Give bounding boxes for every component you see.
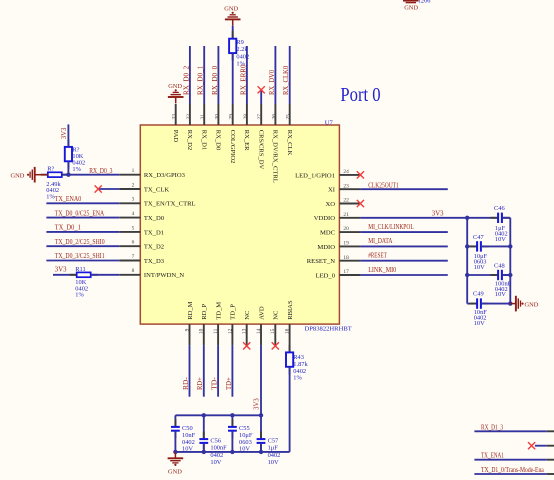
svg-text:TX_D2: TX_D2 <box>144 244 164 251</box>
svg-text:RX_D0_2: RX_D0_2 <box>183 65 190 95</box>
wire RD- vertical <box>189 345 191 397</box>
wire pin3 TX_ENA0 <box>46 202 119 204</box>
svg-text:8: 8 <box>132 268 135 274</box>
svg-text:GND: GND <box>11 172 25 179</box>
no-connect X pin15 <box>272 342 279 349</box>
svg-text:10V: 10V <box>474 320 485 327</box>
no-connect X pin13 <box>243 342 250 349</box>
wire pin1 to resistors <box>62 174 120 176</box>
wire RX_D0_0 vertical <box>217 46 219 104</box>
svg-text:TX_EN/TX_CTRL: TX_EN/TX_CTRL <box>144 201 196 208</box>
svg-text:4: 4 <box>132 211 135 217</box>
wire pin6 <box>46 245 119 247</box>
junction node right rail row2 <box>508 244 512 248</box>
pin 19 MDIO (right) <box>339 245 360 247</box>
svg-text:29: 29 <box>229 114 235 120</box>
svg-text:RX_D0_1: RX_D0_1 <box>198 66 205 95</box>
svg-text:31: 31 <box>200 114 206 120</box>
wire C47 to right rail <box>481 245 510 247</box>
svg-text:0402: 0402 <box>210 452 223 459</box>
svg-text:NC: NC <box>273 310 280 320</box>
svg-text:30: 30 <box>214 114 220 120</box>
no-connect X pin27 <box>258 86 265 93</box>
svg-text:10V: 10V <box>474 264 485 271</box>
svg-text:AVD: AVD <box>258 306 265 320</box>
pin 27 CRS/CRS_DV (top) <box>260 104 262 125</box>
svg-text:1μF: 1μF <box>268 445 279 452</box>
svg-text:1%: 1% <box>72 166 81 173</box>
pin 21 VDDIO (right) <box>339 217 360 219</box>
svg-text:LED_1/GPIO1: LED_1/GPIO1 <box>295 172 335 179</box>
svg-text:C47: C47 <box>473 234 484 241</box>
wire pin16 RBIAS to R43 <box>289 345 291 352</box>
wire with no-connect <box>535 445 547 447</box>
junction node bottom rail C55 <box>230 450 234 454</box>
svg-text:RD-: RD- <box>183 376 190 390</box>
svg-text:2: 2 <box>132 182 135 188</box>
wire TX_ENA1 <box>474 459 546 461</box>
svg-text:INT/PWDN_N: INT/PWDN_N <box>144 272 185 279</box>
svg-text:DP83822HRHBT: DP83822HRHBT <box>305 326 352 333</box>
svg-text:3V3: 3V3 <box>61 127 68 139</box>
svg-text:XI: XI <box>328 187 335 194</box>
pin 26 RX_DV/RX_CTRL (top) <box>274 104 276 125</box>
capacitor C46 1uF <box>490 217 498 219</box>
svg-text:17: 17 <box>343 269 349 275</box>
wire GND to R9 <box>232 26 234 39</box>
svg-text:TD+: TD+ <box>226 377 233 390</box>
wire RX_DV0 vertical <box>274 46 276 104</box>
svg-text:23: 23 <box>343 183 349 189</box>
svg-text:C56: C56 <box>210 438 221 445</box>
svg-text:TX_D0_3/C25_SHI1: TX_D0_3/C25_SHI1 <box>55 253 105 260</box>
junction node top rail C55 <box>230 413 234 417</box>
no-connect X pin2 <box>95 185 102 192</box>
svg-text:2.2k: 2.2k <box>236 46 248 53</box>
junction node bottom rail C56 <box>202 450 206 454</box>
svg-text:10V: 10V <box>210 459 221 466</box>
ground (right decoupling) <box>510 303 515 305</box>
svg-text:CRS/CRS_DV: CRS/CRS_DV <box>257 130 264 170</box>
svg-text:RD_M: RD_M <box>187 301 194 319</box>
svg-text:14: 14 <box>256 328 262 334</box>
pin stub (clipped) <box>547 473 554 475</box>
pin 15 NC (bottom) <box>274 324 276 345</box>
svg-text:26: 26 <box>271 114 277 120</box>
junction node right rail row3 <box>508 273 512 277</box>
svg-text:MDC: MDC <box>320 230 336 237</box>
pin 28 RX_ER (top) <box>246 104 248 125</box>
svg-text:TX_ENA1: TX_ENA1 <box>481 453 504 460</box>
pin 13 NC (bottom) <box>246 324 248 345</box>
wire pin17 <box>360 274 447 276</box>
svg-text:C57: C57 <box>268 438 279 445</box>
svg-text:PAD: PAD <box>172 130 179 143</box>
junction node left rail row2 <box>465 244 469 248</box>
svg-text:Port 0: Port 0 <box>340 85 380 106</box>
wire TX_D1_0/Trans-Mode-Ena <box>474 473 546 475</box>
svg-text:R9: R9 <box>236 39 243 46</box>
svg-text:RD+: RD+ <box>197 377 204 390</box>
pin 4 TX_D0 (left) <box>119 217 140 219</box>
svg-text:3V3: 3V3 <box>253 398 260 410</box>
pin 30 RX_D0 (top) <box>217 104 219 125</box>
pin stub (clipped) <box>547 445 554 447</box>
svg-text:15: 15 <box>270 328 276 334</box>
svg-text:GND: GND <box>224 5 238 12</box>
capacitor C57 1uF <box>260 415 262 439</box>
svg-text:6: 6 <box>132 240 135 246</box>
junction node left rail row3 <box>465 273 469 277</box>
svg-text:3: 3 <box>132 197 135 203</box>
ground (top, pin33 PAD) <box>175 98 177 104</box>
junction node top rail C57/pin14 <box>259 413 263 417</box>
svg-text:28: 28 <box>243 114 249 120</box>
svg-text:10V: 10V <box>239 446 250 453</box>
pin 14 AVD (bottom) <box>260 324 262 345</box>
svg-text:3V3: 3V3 <box>432 210 444 217</box>
svg-text:9: 9 <box>184 328 190 331</box>
svg-text:100nF: 100nF <box>210 445 227 452</box>
svg-text:TX_D0_2/C25_SHI0: TX_D0_2/C25_SHI0 <box>55 239 105 246</box>
pin 3 TX_EN/TX_CTRL (left) <box>119 202 140 204</box>
wire pin5 <box>46 231 119 233</box>
svg-text:C49: C49 <box>473 291 484 298</box>
resistor R11 10K horizontal <box>70 274 77 276</box>
svg-text:3V3: 3V3 <box>55 267 67 274</box>
svg-text:24: 24 <box>343 169 349 175</box>
svg-text:RX_D1: RX_D1 <box>200 130 207 151</box>
svg-text:GND: GND <box>525 301 539 308</box>
wire C49 to right rail <box>481 303 510 305</box>
pin 12 TD_P (bottom) <box>231 324 233 345</box>
pin 24 LED_1/GPIO1 (right) <box>339 174 360 176</box>
svg-text:10V: 10V <box>268 459 279 466</box>
junction node top rail C56 <box>202 413 206 417</box>
svg-text:RX_D2: RX_D2 <box>186 130 193 151</box>
svg-text:RX_ER: RX_ER <box>243 130 250 151</box>
svg-text:U7: U7 <box>325 120 334 127</box>
svg-text:11: 11 <box>213 328 219 333</box>
svg-text:TX_D3: TX_D3 <box>144 258 165 265</box>
svg-text:RX_D1_3: RX_D1_3 <box>481 424 504 431</box>
svg-text:TD_M: TD_M <box>215 302 222 320</box>
svg-text:C50: C50 <box>182 425 193 432</box>
wire pin20 <box>360 231 447 233</box>
svg-text:TX_D0_1: TX_D0_1 <box>55 225 81 232</box>
wire RD+ vertical <box>203 345 205 397</box>
svg-text:TX_D1: TX_D1 <box>144 229 164 236</box>
junction node right rail row4 <box>508 301 512 305</box>
svg-text:TX_D1_0/Trans-Mode-Ena: TX_D1_0/Trans-Mode-Ena <box>481 467 544 474</box>
resistor R43 1.87k vertical <box>289 345 291 353</box>
pin stub RX_D1_3 (clipped) <box>547 430 554 432</box>
pin 32 RX_D2 (top) <box>189 104 191 125</box>
svg-text:12: 12 <box>227 328 233 334</box>
wire RX_D0_2 vertical <box>189 46 191 104</box>
wire R? bottom to pin1 <box>67 161 69 174</box>
wire 3V3 to R11 <box>53 274 77 276</box>
svg-text:TD-: TD- <box>212 376 219 390</box>
svg-text:RX_D0_3: RX_D0_3 <box>89 168 113 175</box>
svg-text:CLK25OUT1: CLK25OUT1 <box>368 182 399 189</box>
junction node bottom rail C57 <box>259 450 263 454</box>
svg-text:GND: GND <box>168 83 182 90</box>
svg-text:RX_CLK: RX_CLK <box>286 130 293 156</box>
svg-text:#RESET: #RESET <box>368 253 387 260</box>
svg-text:19: 19 <box>343 241 349 247</box>
svg-text:RX_ERR0: RX_ERR0 <box>240 64 247 95</box>
svg-text:10V: 10V <box>495 236 506 243</box>
pin 7 TX_D3 (left) <box>119 260 140 262</box>
svg-text:32: 32 <box>186 114 192 120</box>
svg-text:25: 25 <box>286 114 292 120</box>
svg-text:27: 27 <box>257 114 263 120</box>
svg-text:COL/GPIO2: COL/GPIO2 <box>229 130 236 164</box>
wire C48 to right rail <box>502 274 510 276</box>
pin 1 RX_D3/GPIO3 (left) <box>119 174 140 176</box>
svg-text:10V: 10V <box>182 446 193 453</box>
svg-text:LINK_MI0: LINK_MI0 <box>368 267 397 274</box>
junction node pin1/R? <box>66 173 70 177</box>
wire TD+ vertical <box>231 345 233 397</box>
wire R? top to 3V3 <box>67 124 69 146</box>
pin 9 RD_M (bottom) <box>189 324 191 345</box>
capacitor C55 10uF <box>231 415 233 427</box>
pin 5 TX_D1 (left) <box>119 231 140 233</box>
svg-text:C48: C48 <box>494 262 505 269</box>
svg-text:13: 13 <box>242 328 248 334</box>
pin 10 RD_P (bottom) <box>203 324 205 345</box>
svg-text:RBIAS: RBIAS <box>287 300 294 320</box>
svg-text:TX_D0: TX_D0 <box>144 215 165 222</box>
svg-text:RX_DV/RX_CTRL: RX_DV/RX_CTRL <box>272 130 279 183</box>
svg-text:1%: 1% <box>293 375 302 382</box>
wire R11 to pin8 <box>91 274 120 276</box>
wire RX_D0_1 vertical <box>203 46 205 104</box>
wire RX_CLK0 vertical <box>289 46 291 104</box>
capacitor C49 10nF <box>469 303 477 305</box>
svg-text:XO: XO <box>325 201 335 208</box>
pin 6 TX_D2 (left) <box>119 245 140 247</box>
svg-text:10: 10 <box>199 328 205 334</box>
ground (top center, R9) <box>232 20 234 26</box>
svg-text:GND: GND <box>404 4 418 11</box>
svg-text:RESET_N: RESET_N <box>307 258 335 265</box>
pin 11 TD_M (bottom) <box>217 324 219 345</box>
pin 29 COL/GPIO2 (top) <box>232 104 234 125</box>
wire R43 to bottom rail <box>289 367 291 452</box>
wire row1 to C46 <box>467 217 498 219</box>
wire row2 to C47 <box>467 245 477 247</box>
wire pin19 <box>360 245 447 247</box>
svg-text:MDIO: MDIO <box>317 244 335 251</box>
svg-text:RX_DV0: RX_DV0 <box>269 69 276 95</box>
pin 25 RX_CLK (top) <box>289 104 291 125</box>
wire row3 to C48 <box>467 274 498 276</box>
pin 18 RESET_N (right) <box>339 260 360 262</box>
svg-text:RX_D0_0: RX_D0_0 <box>212 65 219 95</box>
svg-text:R11: R11 <box>75 266 85 273</box>
IC U7 DP83822HRHBT Ethernet PHY body <box>140 125 339 324</box>
svg-text:MI_DATA: MI_DATA <box>368 238 392 245</box>
svg-text:16: 16 <box>285 328 291 334</box>
svg-text:1%: 1% <box>75 292 84 299</box>
wire pin21 VDDIO to decoupling rail 3V3 <box>360 217 467 219</box>
junction node bottom rail C50/GND <box>173 450 177 454</box>
wire pin14 AVD to 3V3 rail <box>260 345 262 415</box>
ground (bottom decoupling) <box>174 452 176 458</box>
resistor R9 2.2k vertical <box>232 31 234 39</box>
pin 22 XO (right) <box>339 203 360 205</box>
svg-text:7: 7 <box>132 254 135 260</box>
wire pin2 no-connect stub <box>98 188 119 190</box>
svg-text:LED_0: LED_0 <box>316 272 336 279</box>
wire pin23 CLK25OUT1 <box>360 188 447 190</box>
pin stub TX_ENA1 (clipped) <box>547 459 554 461</box>
svg-text:TX_CLK: TX_CLK <box>144 186 170 193</box>
no-connect X port1 <box>528 442 535 449</box>
wire pin27 stub <box>260 90 262 104</box>
svg-text:33: 33 <box>172 114 178 120</box>
no-connect X pin22 <box>357 200 364 207</box>
pin 2 TX_CLK (left) <box>119 188 140 190</box>
resistor R? 10K vertical pull-up <box>67 139 69 147</box>
pin 20 MDC (right) <box>339 231 360 233</box>
wire R9 to pin29 <box>232 53 234 104</box>
wire pin4 <box>46 217 119 219</box>
svg-text:VDDIO: VDDIO <box>314 215 335 222</box>
svg-text:1206: 1206 <box>418 0 431 5</box>
resistor R? 2.49k horizontal <box>41 174 48 176</box>
wire right rail GND <box>509 218 511 304</box>
pin 23 XI (right) <box>339 188 360 190</box>
pin 17 LED_0 (right) <box>339 274 360 276</box>
wire TD- vertical <box>217 345 219 397</box>
wire RX_D1_3 <box>474 430 546 432</box>
svg-text:1%: 1% <box>236 61 245 68</box>
pin 16 RBIAS (bottom) <box>289 324 291 345</box>
svg-text:TX_D0_0/C25_ENA: TX_D0_0/C25_ENA <box>55 210 104 217</box>
capacitor C56 100nF <box>203 415 205 439</box>
svg-text:1: 1 <box>132 168 135 174</box>
wire left rail 3V3 <box>466 218 468 304</box>
pin 31 RX_D1 (top) <box>203 104 205 125</box>
svg-text:20: 20 <box>343 226 349 232</box>
svg-text:5: 5 <box>132 225 135 231</box>
wire pin18 <box>360 260 447 262</box>
svg-text:RX_CLK0: RX_CLK0 <box>283 65 290 95</box>
svg-text:TD_P: TD_P <box>230 304 237 320</box>
wire RX_ERR0 vertical <box>246 46 248 104</box>
svg-text:0402: 0402 <box>268 452 281 459</box>
capacitor C47 10uF <box>469 245 477 247</box>
svg-text:RX_D0: RX_D0 <box>215 130 222 151</box>
wire C46 to right rail <box>502 217 510 219</box>
svg-text:R?: R? <box>47 166 54 173</box>
pin 8 INT/PWDN_N (left) <box>119 274 140 276</box>
wire bottom bottom rail GND <box>175 451 289 453</box>
wire row4 to C49 <box>467 303 477 305</box>
svg-text:22: 22 <box>343 198 349 204</box>
svg-text:10V: 10V <box>495 291 506 298</box>
wire bottom top rail 3V3 <box>175 414 261 416</box>
ground (top right, clipped) <box>403 0 419 2</box>
svg-text:TX_ENA0: TX_ENA0 <box>55 196 82 203</box>
junction node left rail row1 <box>465 216 469 220</box>
capacitor C50 10nF <box>174 415 176 427</box>
svg-text:MI_CLK/LINKPOL: MI_CLK/LINKPOL <box>368 224 414 231</box>
svg-text:RD_P: RD_P <box>201 303 208 319</box>
no-connect X pin24 <box>357 171 364 178</box>
capacitor C48 100nF <box>490 274 498 276</box>
svg-text:21: 21 <box>343 212 349 218</box>
svg-text:C55: C55 <box>239 425 250 432</box>
svg-text:NC: NC <box>244 310 251 320</box>
pin 33 PAD (top) <box>175 104 177 125</box>
wire pin7 <box>46 260 119 262</box>
svg-text:RX_D3/GPIO3: RX_D3/GPIO3 <box>144 172 186 179</box>
ground (left, at R? pull-down) <box>35 174 47 176</box>
svg-text:GND: GND <box>168 468 182 475</box>
svg-text:0402: 0402 <box>236 53 249 60</box>
svg-text:C46: C46 <box>494 205 505 212</box>
svg-text:18: 18 <box>343 255 349 261</box>
